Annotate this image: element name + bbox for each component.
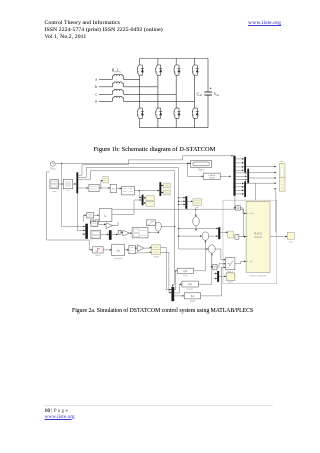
sub bar top <box>244 157 246 172</box>
svg-text:Vabc: Vabc <box>280 161 284 163</box>
inductor Ln <box>113 96 124 101</box>
integrator block <box>112 244 125 260</box>
plecs port3 stub <box>246 260 253 263</box>
wire relay to integrator <box>103 249 112 251</box>
wire demux1 out3 <box>78 171 174 180</box>
svg-text:Vabc: Vabc <box>52 191 56 193</box>
leg 1 upper stub <box>139 59 141 128</box>
bottom right yellow block <box>226 273 235 284</box>
wire sum D out <box>161 226 175 227</box>
small block under L b <box>95 220 99 223</box>
wire long horizontal to plecs port2 <box>112 209 246 238</box>
output port block <box>287 232 294 243</box>
wire op to PI <box>130 232 133 234</box>
wire L to lower row <box>112 199 142 214</box>
transistor Q7 bottom of leg3 <box>174 107 181 120</box>
wire tiny square to port2 <box>239 236 246 238</box>
svg-text:f(u): f(u) <box>188 284 192 286</box>
header website link <box>248 20 281 27</box>
transistor Q1 top of leg1 <box>137 63 144 76</box>
transistor Q3 top of leg3 <box>174 63 181 76</box>
svg-text:Integrator: Integrator <box>114 257 122 260</box>
wire down to sum C <box>195 209 197 216</box>
controller L block <box>99 209 112 222</box>
sum circle D <box>155 222 161 231</box>
wire right dc rail upper <box>207 59 209 93</box>
wire source to circuit block <box>59 183 64 185</box>
svg-text:gates: gates <box>228 281 233 284</box>
wire phase n input <box>99 100 113 102</box>
wire demux1 down-branch <box>77 193 85 231</box>
wire phase c input <box>99 93 113 95</box>
wire sign to switch <box>217 263 226 267</box>
footer website link <box>45 414 75 420</box>
unit delay block <box>110 184 116 192</box>
wire junction up to product block <box>100 180 103 189</box>
wire comp to pwm b <box>135 251 151 253</box>
capacitor plus mark <box>210 87 212 89</box>
ll bar2 <box>109 230 112 240</box>
pwm yellow block <box>152 245 161 259</box>
quantizer block <box>129 246 136 254</box>
label Vdc <box>214 92 220 97</box>
saturation block <box>146 220 155 226</box>
relay block <box>93 247 104 257</box>
wire right mux to yellow <box>220 231 228 233</box>
wire to scope2 c <box>275 188 277 233</box>
wire dq0 to mux2 <box>134 190 159 192</box>
leg 2 stubs <box>157 59 159 128</box>
display yellow block d <box>146 201 154 206</box>
footer page number <box>45 408 69 414</box>
svg-text:f(u): f(u) <box>191 296 195 298</box>
caption figure 1b <box>94 146 216 153</box>
svg-text:Probe: Probe <box>209 177 215 180</box>
inner yellow small block <box>228 231 233 238</box>
wire sum B down to sign block <box>211 253 213 268</box>
wire stub brm b <box>214 278 218 280</box>
wire integrator out <box>125 249 129 251</box>
wire bar3 to display d <box>144 202 146 204</box>
dq0 transform block <box>122 186 135 195</box>
wire demux1 out2 to bus2 <box>78 168 178 178</box>
wire to scope1 a <box>246 166 276 168</box>
wire branch down to bar3 <box>139 191 141 199</box>
wire v2 to sum B <box>179 248 209 250</box>
Fcn2 block <box>184 293 200 303</box>
wire stub brm a <box>214 273 218 275</box>
svg-text:Fcn2: Fcn2 <box>190 301 196 303</box>
scope1 block <box>279 161 285 178</box>
wire gain to sum path <box>113 222 118 226</box>
wire a to leg1 <box>123 78 139 80</box>
wire brm to yellow <box>219 276 226 278</box>
wire ll d <box>121 231 123 233</box>
node a label <box>95 78 97 82</box>
small block under L a <box>90 220 94 223</box>
wire top dc rail <box>140 58 208 60</box>
wire bar to fcn2 <box>174 295 184 297</box>
svg-text:Clock: Clock <box>50 168 57 170</box>
wire demux cluster down b <box>254 184 256 201</box>
wire sum B out to switch <box>215 249 225 261</box>
inner tiny square <box>235 235 239 240</box>
outer subsystem rect <box>223 200 277 283</box>
wire gain to L block <box>94 214 99 216</box>
sub bar bottom <box>244 181 246 197</box>
wire pwm out b <box>161 252 172 293</box>
wire sum A out to right mux <box>209 235 218 237</box>
abc measurement block <box>89 184 99 191</box>
wire sum C down <box>195 226 197 231</box>
wire fcn0 up to sum A <box>194 240 207 270</box>
Fcn block <box>177 268 193 277</box>
const block <box>236 206 241 210</box>
wire phase b input <box>99 86 113 88</box>
small white block ll <box>91 222 98 227</box>
wire to scope2 b <box>246 182 276 184</box>
bar3 mux <box>142 195 144 206</box>
svg-text:f(u): f(u) <box>184 271 188 273</box>
sum circle A <box>202 232 209 240</box>
wire clock-branch down left <box>62 163 85 227</box>
wires big demux to sub bar mid <box>236 172 247 181</box>
svg-text:Vdc: Vdc <box>289 241 292 243</box>
wire mid bar to yellow <box>187 200 193 202</box>
node n label <box>95 100 97 104</box>
wire ll b <box>100 234 109 236</box>
transistor Q4 top of leg4 <box>192 63 199 76</box>
wire PI to sum D <box>148 231 159 233</box>
lower-left mux bar <box>85 224 88 239</box>
wire const to port1 <box>240 208 246 214</box>
wire fcn1 up to sum B <box>198 253 212 284</box>
wire stub into ll bar <box>82 233 85 235</box>
svg-text:PLECS_CIRCUIT: PLECS_CIRCUIT <box>249 276 267 278</box>
product yellow block <box>103 177 109 183</box>
wire bar3 to display c <box>144 197 146 199</box>
wire circuit to demux1 <box>73 183 77 185</box>
wire probe to demux <box>220 175 231 177</box>
label Rs,Ls <box>112 69 120 74</box>
sign block <box>213 264 217 270</box>
clock block <box>50 161 57 170</box>
mid demux bar <box>185 196 187 209</box>
big demux bar <box>233 156 235 196</box>
PLECS probe block <box>204 173 221 180</box>
sub bar mid <box>247 169 249 184</box>
svg-text:1/z: 1/z <box>112 188 115 190</box>
wire v2 tap to right mux <box>178 228 218 230</box>
three-phase source block <box>50 180 59 193</box>
plecs port2 stub <box>246 236 248 238</box>
inductor Lc <box>113 89 124 94</box>
svg-text:K: K <box>125 238 127 240</box>
wire v2 tap to mid bar c <box>178 204 185 206</box>
sum circle B <box>208 245 215 253</box>
wire demux cluster down a <box>234 196 236 209</box>
wire ll a <box>98 224 106 226</box>
svg-text:gate: gate <box>250 260 254 263</box>
transistor Q2 top of leg2 <box>155 63 162 76</box>
node b label <box>95 85 97 89</box>
PLECS_CIRCUIT block <box>246 201 270 277</box>
mid yellow display block <box>193 199 202 209</box>
wire switch to plecs port3 <box>235 261 246 264</box>
caption figure 2a <box>72 308 253 314</box>
svg-text:PWM: PWM <box>154 257 159 259</box>
wire mux2 to scope block a <box>161 185 163 187</box>
svg-text:Ramp: Ramp <box>198 170 205 172</box>
wire L short stub <box>83 214 86 221</box>
wire demux1 to abc block <box>78 187 88 189</box>
inductor Lb <box>113 82 124 87</box>
wire bar to fcn1 <box>174 283 182 293</box>
wire pwm out a <box>161 247 172 290</box>
wire demux1 out1 to top bus <box>78 155 233 175</box>
long vertical wire v1 <box>172 171 175 287</box>
mux2 bar <box>159 182 161 196</box>
wire v2 to sum A <box>178 235 202 237</box>
plecs circuit interface block <box>63 179 73 190</box>
leg 3 stubs <box>175 59 177 128</box>
op triangle ll <box>123 230 130 240</box>
transistor Q5 bottom of leg1 <box>137 107 144 120</box>
wire ll c <box>111 234 118 236</box>
display yellow block a <box>164 183 171 188</box>
wire far-left feed to relay <box>47 172 93 251</box>
long vertical wire v2 <box>178 168 180 249</box>
wire fcn2 to switch <box>201 266 226 295</box>
svg-text:Relay: Relay <box>95 255 100 257</box>
wire v2 tap to mid bar a <box>178 197 185 199</box>
wire to scope2 a <box>249 177 276 179</box>
wire n to leg4 <box>123 100 194 102</box>
svg-text:L: L <box>105 214 107 218</box>
display yellow block c <box>146 196 154 201</box>
wire abc to delay <box>99 187 110 189</box>
bottom mux bar <box>171 287 174 301</box>
wire phase a input <box>99 78 113 80</box>
wire clock to ramp junction <box>55 163 190 165</box>
right mux bar <box>218 227 220 239</box>
switch block <box>226 258 235 274</box>
footer rule <box>44 404 273 407</box>
wire c to leg3 <box>123 93 176 95</box>
wire clock to probe <box>187 163 203 177</box>
display yellow block b <box>164 190 171 195</box>
plecs port1 stub <box>246 213 254 215</box>
wire bar to fcn0 <box>174 270 177 290</box>
wire delay to dq0 <box>117 188 122 190</box>
wire comp to pwm a <box>144 247 152 249</box>
wire quant to comp <box>135 247 137 249</box>
wire mux2 to scope block b <box>161 192 163 194</box>
Fcn1 block <box>182 281 198 291</box>
inductor La <box>113 74 124 79</box>
svg-text:Circuit: Circuit <box>254 236 261 239</box>
gain triangle ll <box>106 223 113 229</box>
rows block ll <box>91 230 101 239</box>
header journal title <box>45 20 163 40</box>
wires big demux to sub bar bottom <box>236 183 244 195</box>
svg-text:Fcn1: Fcn1 <box>188 289 194 291</box>
bottom right mux bar <box>217 271 219 282</box>
PI block <box>132 227 148 238</box>
capacitor Cdc plates <box>204 92 212 95</box>
wire right dc rail lower <box>207 95 209 128</box>
comparator triangle <box>137 245 144 252</box>
svg-text:label: label <box>250 213 254 215</box>
transistor Q8 bottom of leg4 <box>192 107 199 120</box>
transistor Q6 bottom of leg2 <box>155 107 162 120</box>
demux1 bar <box>76 172 78 193</box>
small square ll <box>118 230 121 234</box>
wire sat into sum D <box>155 222 157 224</box>
gain input block <box>87 212 94 218</box>
svg-text:Fcn: Fcn <box>183 275 188 277</box>
leg 4 stubs <box>194 59 196 128</box>
ramp block <box>191 160 212 171</box>
scope2 block <box>279 178 285 191</box>
sum circle C <box>193 217 200 226</box>
wire plecs out to port <box>270 236 287 238</box>
label Cdc <box>197 92 203 97</box>
wires big demux to sub bar top <box>236 158 244 171</box>
node c label <box>95 93 97 97</box>
wire b to leg2 <box>123 86 157 88</box>
wire v2 tap to mid bar b <box>178 200 185 202</box>
wire to scope1 b <box>249 172 276 174</box>
wire bottom dc rail <box>140 127 208 129</box>
